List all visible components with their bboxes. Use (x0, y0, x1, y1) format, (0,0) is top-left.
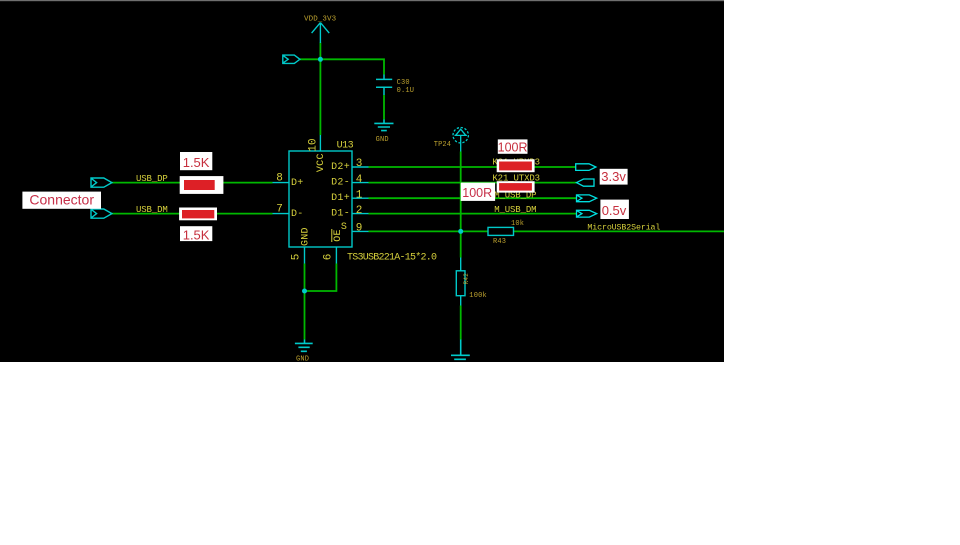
wire pin5 down (304, 264, 306, 292)
svg-text:100R: 100R (462, 186, 492, 200)
svg-text:S: S (341, 222, 347, 233)
connector pennant USB_DM (91, 209, 112, 218)
svg-text:9: 9 (356, 223, 363, 235)
wire D2- row (369, 182, 577, 184)
annotation box 3.3v (600, 169, 628, 185)
connector pennant top (283, 55, 300, 63)
schematic black background (0, 0, 724, 362)
annotation box 1.5K top (180, 152, 212, 170)
svg-text:D1-: D1- (331, 209, 350, 220)
pin 1 stub (352, 197, 369, 199)
svg-text:Connector: Connector (29, 192, 94, 208)
pin 3 stub (352, 166, 369, 168)
pin 8 stub (273, 182, 290, 184)
annotation red block row2 (497, 181, 535, 192)
svg-text:8: 8 (276, 172, 283, 184)
svg-text:TS3USB221A-15*2.0: TS3USB221A-15*2.0 (347, 251, 437, 263)
svg-text:D2+: D2+ (331, 162, 350, 173)
pin 7 stub (273, 213, 290, 215)
junction node at VDD (318, 57, 323, 62)
svg-text:1.5K: 1.5K (183, 155, 210, 170)
svg-text:C30: C30 (397, 79, 410, 87)
svg-text:0.5v: 0.5v (602, 203, 627, 218)
pin 2 stub (352, 213, 369, 215)
svg-text:1.5K: 1.5K (183, 227, 210, 242)
svg-text:D-: D- (291, 209, 304, 220)
svg-text:3.3v: 3.3v (601, 169, 626, 184)
junction node at TP24/S (458, 229, 463, 234)
svg-text:TP24: TP24 (434, 141, 451, 149)
svg-text:MicroUSB2Serial: MicroUSB2Serial (587, 222, 660, 232)
wire D1- row (369, 213, 577, 215)
connector pennant USB_DP (91, 178, 112, 187)
svg-text:1: 1 (356, 189, 363, 201)
junction node pins 5/6 (302, 289, 307, 294)
pin 9 stub (352, 230, 369, 232)
annotation box 100R left (461, 183, 495, 201)
resistor R43 (488, 227, 514, 235)
wire TP24 down through junction (460, 152, 462, 258)
port arrow M_USB_DM (577, 210, 597, 217)
svg-text:R43: R43 (493, 238, 506, 246)
annotation box 100R top (498, 139, 528, 154)
svg-text:D1+: D1+ (331, 193, 350, 204)
annotation box Connector (22, 192, 101, 209)
ground below pins 5/6 (295, 340, 313, 352)
wire 100k resistor to GND (460, 306, 462, 340)
svg-text:100R: 100R (498, 140, 528, 154)
annotation red block over DM resistor (179, 208, 217, 221)
wire S row right of R43 (514, 230, 725, 232)
svg-text:GND: GND (376, 136, 389, 144)
pin 4 stub (352, 182, 369, 184)
IC U13 body (289, 151, 352, 247)
svg-text:M_USB_DM: M_USB_DM (494, 205, 536, 215)
svg-text:2: 2 (356, 205, 363, 217)
svg-text:10: 10 (307, 138, 319, 152)
port arrow K21 row1 (576, 164, 596, 171)
svg-text:D+: D+ (291, 178, 304, 189)
svg-text:4: 4 (356, 174, 363, 186)
svg-text:10k: 10k (511, 220, 524, 228)
svg-text:6: 6 (323, 254, 335, 261)
pin name OE with overline (332, 229, 344, 242)
wire USB_DM (112, 213, 273, 215)
svg-text:3: 3 (356, 158, 363, 170)
svg-text:100k: 100k (469, 292, 487, 300)
wire pin6 down and across (305, 264, 337, 292)
annotation box 1.5K bottom (180, 226, 212, 242)
wire USB_DP (112, 182, 273, 184)
svg-text:GND: GND (301, 227, 312, 246)
wire junction to left GND (304, 291, 306, 340)
pin 10 stub (319, 135, 321, 151)
test point TP24 (453, 128, 468, 152)
ground below C30 (374, 120, 393, 131)
wire VDD vertical (319, 43, 321, 136)
svg-text:D2-: D2- (331, 178, 350, 189)
annotation red block over DP resistor (180, 176, 224, 194)
svg-text:5: 5 (291, 254, 303, 261)
power symbol VDD_3V3 arrow (312, 23, 330, 43)
wire VDD horizontal to C30 (300, 59, 384, 74)
wire D1+ row (369, 197, 577, 199)
svg-text:USB_DP: USB_DP (136, 174, 168, 184)
port arrow M_USB_DP (577, 195, 597, 202)
svg-text:0.1U: 0.1U (397, 87, 415, 95)
svg-text:VDD_3V3: VDD_3V3 (304, 16, 337, 24)
wire S row left of R43 (369, 230, 489, 232)
wire D2+ row (369, 166, 577, 168)
svg-text:7: 7 (276, 203, 283, 215)
svg-text:GND: GND (296, 355, 309, 363)
port arrow K21 row2 (left) (577, 179, 595, 186)
annotation red block row1 (497, 159, 535, 172)
ground below R42 (451, 340, 470, 360)
svg-text:VCC: VCC (316, 153, 327, 172)
pin 6 stub (335, 247, 337, 264)
svg-text:USB_DM: USB_DM (136, 205, 168, 215)
pin 5 stub (304, 247, 306, 264)
resistor R42 100k (456, 258, 465, 306)
annotation box 0.5v (600, 200, 629, 219)
wire C30 to GND (383, 95, 385, 120)
svg-text:U13: U13 (337, 141, 354, 152)
capacitor C30 (376, 75, 392, 96)
svg-text:R42: R42 (463, 273, 470, 285)
